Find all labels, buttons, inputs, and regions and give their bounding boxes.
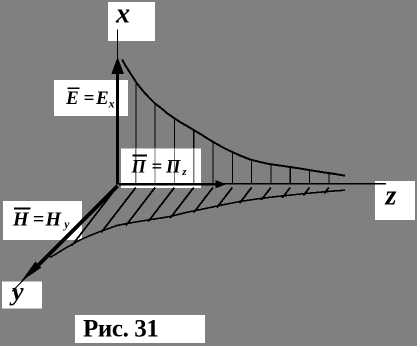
label box: E = Ex	[54, 80, 128, 116]
svg-text:=: =	[152, 157, 163, 177]
H field hatch lines	[72, 188, 117, 246]
label box: H = Hy	[3, 201, 82, 240]
svg-text:y: y	[62, 219, 70, 231]
E field lines (black, curve to z axis)	[135, 82, 137, 149]
z axis (thin line)	[118, 183, 386, 185]
label box: z axis label	[375, 181, 415, 220]
E field lines (gray segments inside P box)	[135, 149, 137, 184]
E envelope curve	[122, 60, 345, 176]
y axis (thin line)	[12, 186, 118, 292]
svg-text:z: z	[181, 166, 187, 178]
svg-text:=: =	[84, 88, 95, 109]
label box: P = Pz	[121, 149, 201, 189]
label box: x axis label	[108, 2, 155, 41]
vector P arrow (thick, along z)	[119, 183, 216, 186]
vector E arrow (thick, along x)	[116, 72, 119, 185]
svg-text:П: П	[165, 157, 181, 177]
label box: caption	[75, 315, 205, 343]
svg-text:x: x	[108, 98, 115, 110]
svg-text:Рис. 31: Рис. 31	[83, 316, 158, 343]
svg-text:E: E	[95, 88, 109, 109]
vector H arrow (thick, along y)	[37, 186, 118, 267]
x axis (thin line)	[117, 30, 119, 185]
svg-text:H: H	[12, 209, 30, 231]
svg-text:E: E	[65, 88, 79, 109]
H envelope curve	[50, 190, 345, 257]
svg-text:z: z	[385, 181, 397, 212]
svg-text:H: H	[45, 209, 63, 231]
label box: y axis label	[2, 282, 42, 309]
svg-text:П: П	[131, 157, 147, 177]
svg-text:x: x	[115, 0, 130, 30]
svg-text:=: =	[33, 209, 44, 231]
